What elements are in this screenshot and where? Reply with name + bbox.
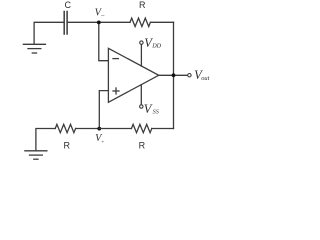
resistor R3 (bottom right) (131, 124, 151, 132)
svg-text:DD: DD (151, 43, 161, 50)
svg-text:C: C (65, 0, 72, 10)
node: output junction dot (172, 73, 176, 77)
terminal VSS (140, 85, 143, 109)
label VSS (144, 102, 159, 116)
wire: R2 to node V+ (76, 128, 100, 130)
wire: R1 to right rail (150, 21, 173, 23)
wire: capacitor to node V- (68, 21, 99, 23)
label VDD (144, 36, 161, 50)
wire: node V+ to resistor R3 (99, 128, 131, 130)
svg-text:R: R (139, 141, 146, 151)
label V- (95, 8, 106, 21)
resistor R1 (top) (130, 18, 150, 26)
wire: right rail (vertical) (173, 22, 175, 128)
label Vout (194, 68, 209, 82)
svg-text:SS: SS (153, 109, 159, 116)
node V- (junction dot) (97, 21, 101, 25)
capacitor C (64, 12, 67, 35)
wire: output (159, 74, 188, 76)
wire: noninverting input from node V+ (99, 91, 108, 129)
svg-text:−: − (100, 12, 105, 20)
terminal Vout (188, 74, 191, 77)
terminal VDD (140, 41, 143, 66)
svg-text:+: + (101, 139, 105, 145)
label V+ (95, 133, 105, 146)
ground (top left) (23, 44, 45, 53)
wire: R3 to right rail (152, 128, 174, 130)
op-amp U1 (108, 48, 158, 102)
ground (bottom left) (25, 151, 47, 159)
svg-text:out: out (201, 75, 209, 82)
resistor R2 (bottom left) (55, 124, 75, 132)
svg-text:R: R (63, 141, 70, 151)
wire: ground to capacitor (top left) (34, 22, 64, 44)
wire: ground to resistor R2 (bottom left) (36, 129, 55, 151)
svg-text:V: V (144, 102, 153, 116)
wire: inverting input from node V- (99, 22, 109, 60)
wire: node V- to resistor R1 (99, 21, 130, 23)
node V+ (junction dot) (97, 127, 101, 131)
svg-text:R: R (139, 0, 146, 10)
